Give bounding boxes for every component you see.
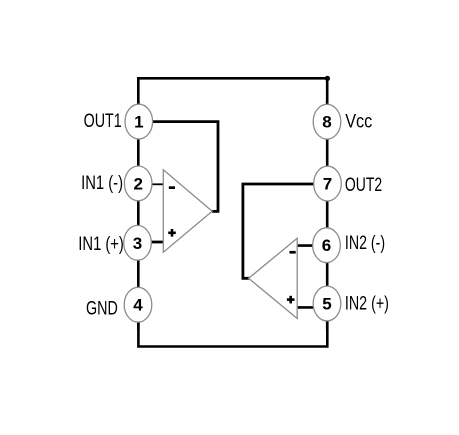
- svg-text:IN2 (-): IN2 (-): [345, 232, 385, 254]
- svg-text:OUT1: OUT1: [84, 109, 122, 132]
- svg-text:6: 6: [322, 236, 331, 255]
- svg-text:IN1 (+): IN1 (+): [78, 232, 124, 255]
- svg-text:2: 2: [133, 174, 142, 193]
- svg-text:OUT2: OUT2: [345, 174, 382, 196]
- svg-text:1: 1: [134, 113, 143, 132]
- svg-text:IN1 (-): IN1 (-): [81, 171, 123, 194]
- svg-text:5: 5: [322, 295, 331, 314]
- svg-text:IN2 (+): IN2 (+): [345, 291, 389, 314]
- svg-text:4: 4: [133, 296, 143, 315]
- svg-text:GND: GND: [86, 296, 118, 319]
- svg-text:Vcc: Vcc: [345, 110, 372, 132]
- svg-text:7: 7: [323, 175, 332, 194]
- svg-text:3: 3: [133, 234, 142, 253]
- svg-text:8: 8: [322, 113, 331, 132]
